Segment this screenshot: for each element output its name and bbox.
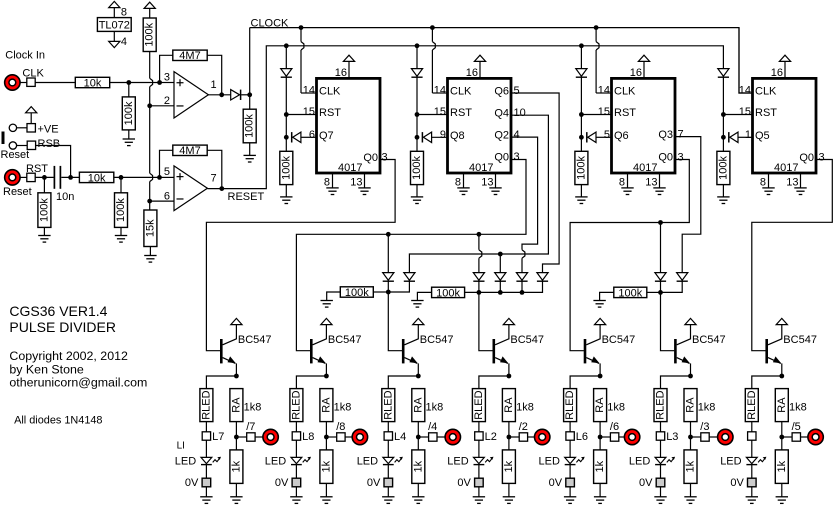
IC U4 4017 body bbox=[612, 78, 676, 173]
svg-text:1k8: 1k8 bbox=[698, 401, 716, 413]
diode reset U2 bbox=[281, 69, 292, 77]
wire RSB pad to RST node bbox=[36, 146, 71, 178]
wire R5 left to pin3 node bbox=[160, 55, 173, 82]
svg-text:15: 15 bbox=[598, 106, 610, 118]
resistor R7 100k bbox=[38, 193, 51, 228]
pad 0V stage2 bbox=[292, 478, 301, 487]
svg-text:1k8: 1k8 bbox=[334, 401, 352, 413]
wire net Q2-U3 bbox=[511, 137, 538, 250]
pin 13 stem U3 bbox=[495, 173, 497, 188]
LED5 symbol bbox=[565, 457, 576, 463]
ground 1k branch stage4 bbox=[503, 496, 515, 498]
svg-text:LED: LED bbox=[175, 455, 196, 467]
svg-text:L7: L7 bbox=[212, 431, 224, 443]
pad L1 bbox=[202, 432, 210, 440]
wire /2 diode c to node bbox=[521, 281, 523, 292]
pad /8 bbox=[337, 433, 345, 441]
svg-text:5: 5 bbox=[164, 166, 170, 178]
wire 100k /4 to ground bbox=[327, 292, 341, 301]
node Q1 emitter bbox=[234, 374, 239, 379]
svg-text:1: 1 bbox=[745, 129, 751, 141]
wire node to pad /5 bbox=[782, 436, 792, 438]
svg-text:BC547: BC547 bbox=[510, 334, 544, 346]
switch SW1 actuator bar bbox=[2, 132, 5, 145]
wire pin6 node down to R4 bbox=[149, 201, 151, 210]
resistor 1k stage3 bbox=[412, 450, 425, 484]
wire pad to jack /8 bbox=[345, 436, 352, 438]
jack /4 bbox=[445, 429, 460, 444]
hop CLOCK drop 2 over reset line bbox=[432, 42, 435, 50]
wire net Q0-U4 bus bbox=[570, 160, 689, 351]
node output stage6 bbox=[688, 435, 693, 440]
wire pad to jack /6 bbox=[619, 436, 625, 438]
svg-text:1k: 1k bbox=[412, 460, 424, 472]
svg-text:Copyright 2002, 2012: Copyright 2002, 2012 bbox=[9, 349, 128, 363]
transistor Q2 emitter bbox=[313, 358, 326, 364]
IC U1 TL072 power box bbox=[97, 18, 131, 32]
svg-text:8: 8 bbox=[455, 176, 461, 188]
wire reset drop U5 bbox=[722, 46, 724, 69]
ground pin13 U3 bbox=[489, 187, 501, 189]
switch SW1 contact a bbox=[9, 124, 16, 131]
jack J1 Clock In bbox=[5, 75, 20, 90]
svg-text:Q4: Q4 bbox=[494, 108, 509, 120]
svg-text:0V: 0V bbox=[275, 477, 289, 489]
wire 1k to ground stage6 bbox=[690, 483, 692, 496]
svg-text:100k: 100k bbox=[123, 101, 135, 125]
ground 1k branch stage5 bbox=[594, 496, 606, 498]
svg-text:CLK: CLK bbox=[319, 85, 341, 97]
wire pad to LED3 bbox=[387, 440, 389, 457]
diode /3 a bbox=[655, 273, 666, 281]
resistor RA3 bbox=[412, 389, 425, 422]
svg-text:16: 16 bbox=[771, 67, 783, 79]
svg-text:L3: L3 bbox=[666, 431, 678, 443]
svg-text:L4: L4 bbox=[394, 431, 406, 443]
svg-text:16: 16 bbox=[466, 67, 478, 79]
svg-text:by Ken Stone: by Ken Stone bbox=[9, 363, 84, 377]
LED1 symbol bbox=[201, 457, 212, 463]
transistor Q4 emitter bbox=[495, 358, 508, 364]
wire CLOCK drop to IC4 CLK bbox=[739, 28, 753, 93]
svg-text:100k: 100k bbox=[411, 156, 423, 180]
wire clock node down to R6 bbox=[249, 95, 251, 109]
transistor Q7 BC547 base bar bbox=[765, 339, 768, 363]
svg-text:1k: 1k bbox=[230, 460, 242, 472]
wire U1a output bbox=[208, 94, 230, 96]
wire RST pad to cap bbox=[35, 176, 53, 178]
pad /3 bbox=[701, 433, 709, 441]
node Q feedback U3 bbox=[415, 135, 420, 140]
pad L6 bbox=[656, 432, 664, 440]
IC U4 pin16 stem bbox=[643, 61, 645, 78]
hop CLOCK drop 1 over reset line bbox=[301, 42, 304, 50]
wire Q feedback stub U2 bbox=[301, 136, 317, 138]
node output stage3 bbox=[416, 435, 421, 440]
ground below R7 bbox=[38, 235, 50, 237]
svg-text:/4: /4 bbox=[428, 421, 437, 433]
wire CLOCK drop to IC1 CLK bbox=[300, 28, 302, 42]
wire R4 to ground bbox=[149, 247, 151, 256]
wire arrow to U1 box bbox=[113, 8, 115, 18]
svg-text:10k: 10k bbox=[88, 172, 106, 184]
svg-text:RA: RA bbox=[503, 397, 515, 413]
transistor Q1 collector bbox=[223, 325, 237, 345]
svg-text:0V: 0V bbox=[185, 477, 199, 489]
wire 1k to ground stage1 bbox=[235, 483, 237, 496]
ground below R6 bbox=[244, 154, 256, 156]
svg-text:CGS36 VER1.4: CGS36 VER1.4 bbox=[9, 303, 107, 319]
wire 0V pad to ground stage2 bbox=[295, 487, 297, 497]
transistor Q5 emitter bbox=[586, 358, 599, 364]
ground LED branch stage1 bbox=[200, 496, 212, 498]
svg-text:+VE: +VE bbox=[38, 123, 59, 135]
svg-text:BC547: BC547 bbox=[783, 334, 817, 346]
svg-text:L2: L2 bbox=[485, 431, 497, 443]
svg-text:RA: RA bbox=[776, 397, 788, 413]
wire net Q0-U3 bus bbox=[296, 160, 526, 351]
wire reset drop U4 lower bbox=[580, 77, 582, 151]
wire node to 1k stage4 bbox=[508, 437, 510, 450]
svg-text:16: 16 bbox=[630, 67, 642, 79]
svg-text:8: 8 bbox=[121, 6, 127, 18]
ground LED branch stage5 bbox=[564, 496, 576, 498]
wire D1 to clock node bbox=[241, 94, 250, 96]
diode Q feedback U4 bbox=[586, 132, 588, 142]
svg-text:Q3: Q3 bbox=[658, 129, 673, 141]
wire 1k to ground stage4 bbox=[508, 483, 510, 496]
wire U1 box to minus arrow bbox=[113, 31, 115, 41]
ground pin8 U5 bbox=[762, 187, 774, 189]
svg-text:RA: RA bbox=[594, 397, 606, 413]
svg-text:Q8: Q8 bbox=[450, 130, 465, 142]
wire RST stub U2 bbox=[286, 114, 316, 116]
svg-text:8: 8 bbox=[324, 176, 330, 188]
resistor 1k stage4 bbox=[502, 450, 515, 484]
wire U1b output RESET bbox=[207, 46, 724, 189]
wire RLED3 to pad bbox=[387, 422, 389, 432]
svg-text:Reset: Reset bbox=[3, 186, 32, 198]
LED4 symbol bbox=[474, 457, 485, 463]
wire net Q6-U3 bbox=[511, 93, 559, 273]
wire pad to LED1 bbox=[205, 440, 207, 457]
svg-text:BC547: BC547 bbox=[602, 334, 636, 346]
pad L3 bbox=[384, 432, 392, 440]
svg-text:0V: 0V bbox=[549, 477, 563, 489]
wire /2 diode a drop bbox=[478, 234, 480, 250]
svg-text:8: 8 bbox=[760, 176, 766, 188]
wire 100k /2 to ground bbox=[417, 292, 431, 300]
pin 8 stem U4 bbox=[627, 173, 629, 188]
svg-text:LED: LED bbox=[265, 455, 286, 467]
wire pin6 node to opamp2 bbox=[150, 200, 174, 202]
svg-text:15: 15 bbox=[739, 106, 751, 118]
transistor Q4 BC547 base bar bbox=[493, 339, 496, 363]
transistor Q1 emitter bbox=[223, 358, 236, 364]
svg-text:3: 3 bbox=[382, 151, 388, 163]
hop Q2 drop over Q4 line bbox=[522, 250, 525, 258]
wire SW1a to +VE pad bbox=[17, 127, 27, 129]
LED7 symbol bbox=[746, 457, 757, 463]
svg-text:PULSE DIVIDER: PULSE DIVIDER bbox=[9, 319, 116, 335]
svg-text:BC547: BC547 bbox=[420, 334, 454, 346]
svg-text:/5: /5 bbox=[792, 421, 801, 433]
resistor R10 4M7 bbox=[173, 145, 207, 155]
svg-text:LED: LED bbox=[447, 455, 468, 467]
wire R10 right to output bbox=[207, 150, 222, 188]
power arrow Q5 collector bbox=[595, 318, 606, 324]
wire /4 diode a to node bbox=[387, 281, 389, 292]
wire 0V pad to ground stage7 bbox=[751, 487, 753, 497]
svg-text:Q0: Q0 bbox=[494, 152, 509, 164]
node Q4 line to /2 diode bbox=[498, 252, 503, 257]
wire LED7 to 0V pad bbox=[751, 465, 753, 479]
pin 8 stem U3 bbox=[463, 173, 465, 188]
node CLOCK junction bbox=[247, 92, 252, 97]
svg-text:15: 15 bbox=[303, 106, 315, 118]
pad 0V stage6 bbox=[656, 478, 665, 487]
power arrow Q1 collector bbox=[231, 318, 242, 324]
wire Q feedback stub U3 bbox=[431, 136, 447, 138]
wire emitter to RLED3 bbox=[388, 376, 418, 389]
node Q feedback U5 bbox=[721, 135, 726, 140]
wire 0V pad to ground stage5 bbox=[569, 487, 571, 497]
ground pin13 U4 bbox=[653, 187, 665, 189]
node CLKIN junction bbox=[126, 80, 131, 85]
svg-text:BC547: BC547 bbox=[692, 334, 726, 346]
power arrow Q4 collector bbox=[503, 318, 514, 324]
jack /7 bbox=[263, 429, 278, 444]
wire RA4 to node bbox=[508, 422, 510, 437]
node Q3 emitter bbox=[416, 374, 421, 379]
wire 100k /3 to ground bbox=[600, 292, 614, 300]
node Q0 bus to /2 diode bbox=[477, 232, 482, 237]
svg-text:14: 14 bbox=[303, 85, 315, 97]
wire R3 down to pin2 node bbox=[149, 52, 151, 79]
wire /2 diode b drop bbox=[499, 254, 501, 273]
svg-text:L8: L8 bbox=[302, 431, 314, 443]
wire /3 diode b to node bbox=[661, 281, 683, 292]
svg-text:RST: RST bbox=[755, 107, 777, 119]
wire 100k to ground U5 bbox=[722, 185, 724, 197]
power arrow IC U4 pin16 bbox=[638, 55, 649, 61]
svg-text:BC547: BC547 bbox=[328, 334, 362, 346]
resistor RLED3 bbox=[382, 389, 395, 422]
wire pad to jack /7 bbox=[255, 436, 263, 438]
wire RLED5 to pad bbox=[569, 422, 571, 432]
ground LED branch stage4 bbox=[473, 496, 485, 498]
diode /4 b bbox=[404, 273, 415, 281]
wire 1k to ground stage3 bbox=[417, 483, 419, 496]
diode /2 d bbox=[537, 273, 548, 281]
resistor RLED7 bbox=[745, 389, 758, 422]
wire jack J1 to CLK pad bbox=[20, 82, 27, 84]
node reset to IC2 bbox=[415, 43, 420, 48]
svg-text:100k: 100k bbox=[244, 114, 256, 138]
svg-text:0V: 0V bbox=[639, 477, 653, 489]
wire net Q4-U3 bbox=[409, 115, 548, 272]
wire RA7 to node bbox=[781, 422, 783, 437]
pad 0V stage1 bbox=[202, 478, 211, 487]
wire node CLKIN down bbox=[128, 83, 130, 97]
wire RST node down to R7 bbox=[43, 177, 45, 192]
node output stage7 bbox=[779, 435, 784, 440]
wire LED4 to 0V pad bbox=[478, 465, 480, 479]
jack /3 bbox=[718, 429, 733, 444]
svg-text:1: 1 bbox=[211, 79, 217, 91]
wire /4 node to stage3 bbox=[388, 292, 402, 351]
wire LED6 to 0V pad bbox=[660, 465, 662, 479]
wire pin2 node down to pin6 node bbox=[149, 106, 151, 173]
wire /3 diode a drop bbox=[660, 223, 662, 273]
capacitor C1 10n bbox=[53, 166, 55, 189]
diode reset U5 bbox=[718, 69, 729, 77]
wire R8 to pin5 node bbox=[114, 176, 160, 178]
resistor R1 10k bbox=[75, 77, 109, 87]
svg-text:0V: 0V bbox=[730, 477, 744, 489]
resistor 1k stage6 bbox=[684, 450, 697, 484]
wire LED3 to 0V pad bbox=[387, 465, 389, 479]
wire RA3 to node bbox=[417, 422, 419, 437]
ground LED branch stage6 bbox=[654, 496, 666, 498]
node pin5 junction bbox=[157, 175, 162, 180]
wire 0V pad to ground stage3 bbox=[387, 487, 389, 497]
ground 1k branch stage2 bbox=[320, 496, 332, 498]
power arrow above +VE pad bbox=[26, 107, 37, 113]
svg-text:Q0: Q0 bbox=[799, 152, 814, 164]
resistor 1k stage5 bbox=[594, 450, 607, 484]
svg-text:14: 14 bbox=[434, 85, 446, 97]
diode Q feedback U3 bbox=[421, 132, 423, 142]
svg-text:RA: RA bbox=[412, 397, 424, 413]
resistor RLED5 bbox=[564, 389, 577, 422]
svg-text:1k: 1k bbox=[776, 460, 788, 472]
IC U3 4017 body bbox=[448, 78, 512, 173]
node Q4 emitter bbox=[507, 374, 512, 379]
pad /6 bbox=[610, 433, 618, 441]
svg-text:CLK: CLK bbox=[450, 85, 472, 97]
wire R7 to ground bbox=[43, 227, 45, 235]
wire arrow to +VE pad bbox=[30, 113, 32, 124]
svg-text:1k8: 1k8 bbox=[426, 401, 444, 413]
transistor Q6 BC547 base bar bbox=[674, 339, 677, 363]
wire pad to jack /5 bbox=[801, 436, 808, 438]
wire 100k /4 to node bbox=[373, 291, 388, 293]
svg-text:10k: 10k bbox=[84, 77, 102, 89]
svg-text:1k8: 1k8 bbox=[607, 401, 625, 413]
svg-text:RSB: RSB bbox=[38, 138, 61, 150]
node CLOCK to IC1 clk bbox=[299, 25, 304, 30]
ground pin8 U2 bbox=[326, 187, 338, 189]
wire /2 node to stage4 bbox=[479, 292, 493, 350]
wire /2 diode a to node bbox=[478, 281, 480, 292]
wire RLED4 to pad bbox=[478, 422, 480, 432]
wire node CLKIN to opamp pin3 bbox=[160, 82, 174, 84]
wire node to 1k stage3 bbox=[417, 437, 419, 450]
hop wire over RST wire bbox=[150, 173, 153, 181]
resistor R6 100k bbox=[243, 109, 256, 143]
wire RLED7 to pad bbox=[751, 422, 753, 432]
svg-text:1k8: 1k8 bbox=[516, 401, 534, 413]
node output stage1 bbox=[234, 435, 239, 440]
wire node to 1k stage7 bbox=[781, 437, 783, 450]
wire RST stub U4 bbox=[581, 114, 611, 116]
pad /7 bbox=[247, 433, 255, 441]
wire R10 left to pin5 node bbox=[160, 150, 173, 177]
diode D1 bbox=[231, 90, 240, 100]
svg-text:4: 4 bbox=[121, 36, 127, 48]
wire node to 1k stage2 bbox=[325, 437, 327, 450]
svg-text:100k: 100k bbox=[436, 287, 460, 299]
svg-text:7: 7 bbox=[211, 173, 217, 185]
wire reset drop U5 lower bbox=[722, 77, 724, 151]
svg-text:Q7: Q7 bbox=[319, 130, 334, 142]
ground below 100k U2 bbox=[280, 196, 292, 198]
wire /4 diode a drop bbox=[387, 234, 389, 272]
wire R5 right to output node bbox=[207, 55, 222, 95]
hop R3 wire over CLK wire bbox=[150, 78, 153, 86]
ground 100k /2 bbox=[411, 300, 423, 302]
ground below R4 bbox=[144, 255, 156, 257]
svg-text:Q6: Q6 bbox=[494, 86, 509, 98]
svg-text:100k: 100k bbox=[115, 198, 127, 222]
ground below 100k U5 bbox=[717, 196, 729, 198]
diode /2 b bbox=[495, 273, 506, 281]
jack J2 Reset bbox=[5, 170, 20, 185]
wire pin2 node to opamp bbox=[150, 105, 174, 107]
hop CLOCK drop 3 over reset line bbox=[596, 42, 599, 50]
resistor R8 10k bbox=[79, 172, 113, 182]
power arrow Q6 collector bbox=[685, 318, 696, 324]
svg-text:4M7: 4M7 bbox=[179, 145, 200, 157]
wire pad to LED7 bbox=[751, 440, 753, 457]
resistor RLED1 bbox=[200, 389, 213, 422]
svg-text:LED: LED bbox=[720, 455, 741, 467]
wire emitter to RLED1 bbox=[206, 376, 236, 389]
node /3 bbox=[658, 290, 663, 295]
wire emitter to RLED5 bbox=[570, 376, 600, 389]
resistor R4 15k bbox=[144, 210, 157, 247]
resistor RLED4 bbox=[472, 389, 485, 422]
svg-text:All diodes 1N4148: All diodes 1N4148 bbox=[14, 415, 102, 427]
transistor Q5 collector bbox=[586, 325, 600, 345]
node /2 b bbox=[498, 290, 503, 295]
diode /3 b bbox=[677, 273, 688, 281]
resistor R5 4M7 bbox=[173, 50, 207, 60]
node RSB junction bbox=[68, 175, 73, 180]
transistor Q7 collector bbox=[768, 325, 782, 345]
wire CLOCK drop to IC2 CLK bbox=[431, 28, 433, 42]
wire pin5 node to opamp2 bbox=[160, 176, 175, 178]
wire reset drop U4 bbox=[580, 46, 582, 69]
node pin2 junction bbox=[147, 103, 152, 108]
transistor Q2 collector bbox=[313, 325, 327, 345]
diode Q feedback U5 bbox=[728, 132, 730, 142]
pad 0V stage4 bbox=[475, 478, 484, 487]
resistor 100k pulldown U3 bbox=[411, 151, 424, 184]
wire emitter to RLED2 bbox=[296, 376, 326, 389]
wire 100k to ground U3 bbox=[416, 185, 418, 197]
wire 0V pad to ground stage4 bbox=[478, 487, 480, 497]
pad L4 bbox=[475, 432, 483, 440]
node Q2 emitter bbox=[324, 374, 329, 379]
svg-text:1k: 1k bbox=[594, 460, 606, 472]
resistor 100k pulldown U4 bbox=[575, 151, 588, 184]
wire Q feedback stub U4 bbox=[596, 136, 612, 138]
diode /2 c bbox=[516, 273, 527, 281]
resistor RA5 bbox=[594, 389, 607, 422]
wire pad to LED4 bbox=[478, 440, 480, 457]
